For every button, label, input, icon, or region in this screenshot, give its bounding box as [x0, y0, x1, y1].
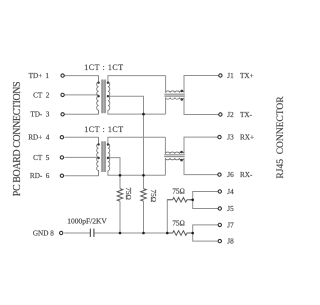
wire CT2 pin to T1 primary center tap	[64, 94, 98, 96]
wire capacitor C1 to ground bus	[94, 232, 167, 234]
wire resistor R3 to J4/J5 node	[189, 199, 192, 201]
pin J8	[218, 239, 221, 242]
svg-text:CT: CT	[33, 91, 43, 99]
pin label RD+ 4	[28, 134, 50, 142]
wire choke L1 left bottom lead	[165, 98, 167, 115]
resistor R3 75ohm horizontal	[167, 198, 192, 203]
choke L1 top winding	[166, 91, 184, 93]
wire node to J7	[193, 225, 218, 233]
svg-text:RX+: RX+	[240, 134, 254, 142]
junction R1 to ground bus	[119, 232, 122, 235]
wire choke L1 to J2	[184, 98, 219, 115]
svg-text:RD+: RD+	[28, 134, 42, 142]
wire TD- pin to T1 primary bottom	[64, 113, 98, 115]
wire T1 secondary bottom to choke L1	[108, 110, 166, 114]
pin 6 RD-	[60, 174, 63, 177]
wire T1 secondary top to choke L1	[108, 76, 166, 82]
svg-text:1CT : 1CT: 1CT : 1CT	[84, 125, 123, 134]
pin J4	[218, 190, 221, 193]
svg-text:J3: J3	[227, 134, 234, 142]
svg-text:RX-: RX-	[240, 171, 253, 179]
svg-text:2: 2	[46, 91, 50, 99]
wire node to J5	[193, 200, 218, 209]
junction dots	[119, 113, 194, 235]
pin 1 TD+	[61, 74, 64, 77]
junction ground bus to R3 branch	[166, 232, 169, 235]
transformer T2 primary winding	[97, 137, 99, 176]
svg-text:75Ω: 75Ω	[149, 190, 157, 203]
svg-text:J5: J5	[227, 205, 234, 213]
junction R1 line over T2 secondary bottom	[119, 174, 122, 177]
pin J5	[218, 207, 221, 210]
pin label J3 RX+	[227, 134, 254, 142]
pin 5 CT	[60, 156, 63, 159]
pin label GND 8	[33, 229, 54, 237]
pin label RD- 6	[30, 172, 50, 180]
pin 3 TD-	[61, 113, 64, 116]
wire choke L2 to J6	[184, 158, 218, 174]
svg-text:75Ω: 75Ω	[172, 187, 185, 195]
choke L1 core	[164, 94, 185, 96]
wire choke L1 left top lead	[165, 76, 167, 93]
wire RD+ pin to T2 primary top	[64, 136, 98, 138]
transformer T1 secondary winding	[108, 82, 110, 110]
wire T1 secondary center tap to resistor R2	[108, 96, 144, 188]
resistor R1 75ohm vertical	[117, 189, 123, 202]
pin label J2 TX-	[227, 111, 252, 119]
wire resistor R4 to J7/J8 node	[189, 232, 192, 234]
pin J1	[219, 74, 222, 77]
svg-text:6: 6	[46, 172, 50, 180]
wire ground bus branch to resistor R3	[167, 200, 171, 233]
pin 2 CT	[61, 93, 64, 96]
wire T2 secondary bottom to choke L2	[108, 171, 165, 176]
pin 4 RD+	[60, 136, 63, 139]
wire RD- pin to T2 primary bottom	[64, 175, 98, 177]
wire node to J4	[193, 192, 218, 200]
svg-text:TD+: TD+	[29, 72, 43, 80]
transformer T1 core	[102, 80, 105, 114]
svg-text:8: 8	[50, 229, 54, 237]
svg-text:J2: J2	[227, 111, 234, 119]
wire T2 secondary center tap to resistor R1	[108, 158, 120, 189]
svg-text:5: 5	[46, 154, 50, 162]
capacitor C1 1000pF/2KV	[90, 229, 94, 237]
svg-text:J4: J4	[227, 188, 234, 196]
wire T2 secondary top to choke L2	[108, 137, 165, 144]
pin J2	[219, 113, 222, 116]
pin label J1 TX+	[227, 72, 253, 80]
resistor R4 75ohm horizontal	[167, 231, 192, 236]
svg-text:CT: CT	[33, 154, 43, 162]
svg-text:4: 4	[46, 134, 50, 142]
svg-text:TD-: TD-	[30, 111, 43, 119]
pin label J6 RX-	[227, 171, 253, 179]
wire CT5 pin to T2 primary center tap	[64, 156, 98, 158]
svg-text:1000pF/2KV: 1000pF/2KV	[67, 216, 107, 225]
pin J3	[218, 135, 221, 138]
svg-text:RJ45 CONNECTOR: RJ45 CONNECTOR	[276, 96, 286, 179]
svg-text:TX+: TX+	[240, 72, 254, 80]
pin circles left	[60, 74, 223, 243]
pin label CT 5	[33, 154, 50, 162]
wire choke L2 left bottom lead	[164, 158, 166, 175]
svg-text:J8: J8	[227, 238, 234, 246]
wire resistor R1 bottom to ground bus	[119, 201, 121, 233]
svg-text:PC BOARD CONNECTIONS: PC BOARD CONNECTIONS	[12, 82, 23, 196]
wire GND pin to capacitor C1	[64, 232, 90, 234]
junction J7/J8 node	[191, 232, 194, 235]
pin label TD+ 1	[29, 72, 50, 80]
wire choke L2 left top lead	[164, 137, 166, 154]
pin J6	[218, 173, 221, 176]
svg-text:3: 3	[46, 111, 50, 119]
junction R2 line over T2 secondary bottom	[142, 174, 145, 177]
svg-text:75Ω: 75Ω	[124, 187, 132, 200]
junction T1 ct line over secondary bottom	[142, 113, 145, 116]
choke L2 top winding	[165, 152, 184, 154]
choke L1 bottom winding	[166, 98, 184, 100]
svg-text:GND: GND	[33, 229, 49, 237]
pin 8 GND	[60, 231, 63, 234]
svg-text:1: 1	[45, 72, 49, 80]
choke L2 polarity dots	[180, 151, 183, 162]
T1 polarity dots	[97, 82, 109, 98]
wire choke L1 to J1	[184, 76, 219, 93]
svg-text:J1: J1	[227, 72, 234, 80]
junction R2 to ground bus	[142, 232, 145, 235]
transformer T2 secondary winding	[108, 144, 110, 171]
wire TD+ pin to T1 primary top	[64, 75, 98, 77]
pin label CT 2	[33, 91, 50, 99]
pin J7	[218, 223, 221, 226]
svg-text:1CT : 1CT: 1CT : 1CT	[84, 63, 123, 72]
choke L2 bottom winding	[165, 158, 184, 160]
wire resistor R2 bottom to ground bus	[143, 201, 145, 233]
transformer T2 core	[102, 141, 105, 172]
resistor R2 75ohm vertical	[141, 189, 147, 202]
svg-text:RD-: RD-	[30, 172, 43, 180]
svg-text:75Ω: 75Ω	[172, 220, 185, 228]
choke L1 polarity dots	[181, 90, 184, 101]
svg-text:J6: J6	[227, 171, 234, 179]
svg-text:J7: J7	[227, 221, 234, 229]
svg-text:TX-: TX-	[240, 111, 253, 119]
choke L2 core	[164, 155, 185, 157]
pin label TD- 3	[30, 111, 49, 119]
T2 polarity dots	[97, 143, 109, 159]
junction J4/J5 node	[191, 199, 194, 202]
transformer T1 primary winding	[97, 76, 99, 115]
wire choke L2 to J3	[184, 137, 218, 154]
wire node to J8	[193, 233, 218, 241]
